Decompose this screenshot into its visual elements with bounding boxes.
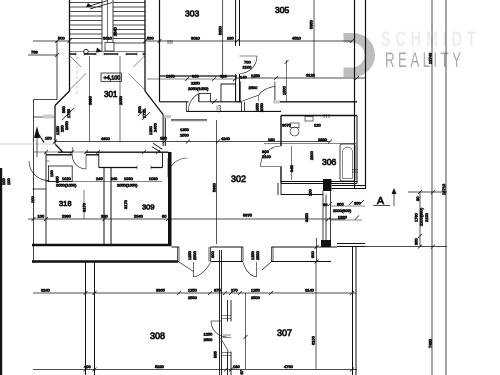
toilet 306 tank (290, 123, 299, 128)
svg-text:1250: 1250 (180, 127, 190, 132)
dim chain right vertical (419, 192, 421, 247)
svg-text:2930: 2930 (318, 137, 328, 142)
door handle ticks (223, 335, 232, 338)
dim ticks mid (53, 140, 332, 144)
svg-text:100: 100 (6, 178, 11, 185)
svg-text:180: 180 (233, 364, 240, 369)
stair flight divider mid rail (107, 0, 109, 43)
sill line 318 (33, 188, 47, 190)
svg-text:2500: 2500 (249, 85, 259, 90)
svg-text:875: 875 (214, 288, 221, 293)
dim 758 tick (55, 53, 59, 57)
room 306 east wall (356, 116, 358, 184)
door 303-305 leaf (240, 55, 258, 57)
door 301-302 leaf (198, 94, 200, 102)
svg-text:240: 240 (96, 176, 103, 181)
svg-text:3010: 3010 (191, 36, 201, 41)
corner block 302 SE (323, 179, 332, 191)
svg-text:370: 370 (231, 288, 238, 293)
door arc hall to 302 (168, 158, 187, 177)
svg-text:301: 301 (104, 90, 118, 99)
dim slashes 301 interior (186, 140, 190, 144)
rooms 318/309 bottom wall (32, 244, 172, 247)
dim chain bottom line (356, 246, 447, 248)
svg-text:360: 360 (354, 201, 361, 206)
corner splay top-left (70, 56, 81, 67)
svg-text:87: 87 (239, 369, 244, 374)
hall inner wall lower segment (228, 352, 232, 375)
room 301 bottom wall upper face (58, 151, 163, 153)
corridor bottom wall west (top of 308) (32, 260, 178, 263)
svg-text:309: 309 (142, 203, 155, 212)
door arc 318 (72, 155, 86, 169)
toilet 306 bowl (290, 127, 299, 136)
svg-text:1030: 1030 (124, 176, 134, 181)
left wall band outer face (34, 99, 58, 101)
door pier box (199, 94, 211, 102)
section arrow left (36, 130, 38, 157)
shaft wall between 305 and 306 (242, 102, 245, 112)
svg-text:4510: 4510 (292, 36, 302, 41)
svg-text:758: 758 (31, 50, 38, 55)
wall 303 bottom (160, 75, 238, 77)
wall 318 west (45, 155, 47, 246)
duct wall right of 302 (323, 191, 331, 240)
svg-text:303: 303 (185, 9, 199, 19)
wall 318/309 double (104, 168, 111, 247)
corridor wall face A (160, 101, 237, 103)
left outer wall lower (33, 100, 35, 264)
svg-text:4300: 4300 (101, 136, 111, 141)
window hatch niche (216, 106, 220, 112)
svg-text:2340: 2340 (134, 214, 144, 219)
svg-text:REALITY: REALITY (385, 48, 464, 72)
connector wall x98.8 (98, 153, 100, 168)
left wall band inner face (34, 116, 55, 118)
room 301 bottom-left chamfer (55, 144, 63, 152)
jamb pair door2 right (272, 247, 274, 262)
svg-text:308: 308 (150, 331, 165, 341)
svg-text:100: 100 (30, 196, 35, 203)
door arc 318 west wall (29, 161, 48, 181)
wall 303 west (159, 0, 161, 102)
svg-text:1500: 1500 (282, 85, 287, 95)
long dim line x=446 (445, 0, 447, 375)
east wing stub wall (337, 244, 365, 247)
svg-text:3305: 3305 (156, 288, 166, 293)
stair flight divider right (112, 0, 114, 51)
dim ticks 3120 (274, 76, 359, 80)
svg-text:2250: 2250 (191, 81, 201, 86)
svg-text:2050: 2050 (118, 95, 123, 105)
jamb pair door2 left (242, 247, 244, 262)
stair landing box (105, 43, 114, 52)
corner splay bottom-left (70, 74, 86, 90)
jamb pair door1 left (178, 247, 180, 262)
svg-text:1250: 1250 (251, 73, 261, 78)
dim slashes near duct (326, 200, 364, 222)
door jambs 309 (137, 166, 151, 170)
dim line y219 (28, 218, 345, 220)
dim line y293 (33, 292, 356, 294)
room 306 west wall lower (280, 167, 282, 184)
svg-text:5230: 5230 (155, 364, 165, 369)
svg-text:180: 180 (268, 137, 275, 142)
upper dim line doors (33, 151, 166, 153)
door 305 leaf diagonal (241, 95, 258, 101)
stair east wall (144, 0, 146, 91)
svg-text:3010: 3010 (103, 36, 113, 41)
dim line 306 (264, 143, 356, 145)
dim short line 1320 (330, 219, 362, 221)
bathtub ticks (352, 170, 358, 173)
svg-text:140: 140 (240, 75, 247, 80)
door corridor 1 arc (194, 263, 211, 278)
left edge black bar (0, 168, 2, 375)
svg-text:3170: 3170 (123, 199, 128, 209)
room 301 right lower wall (163, 115, 165, 147)
SE step horizontal (281, 194, 323, 196)
stair break arrowhead (86, 3, 92, 7)
svg-text:1725: 1725 (66, 108, 71, 118)
corner splay top-right (134, 56, 145, 67)
svg-text:2600: 2600 (309, 150, 314, 160)
dim line vertical 3890 in 301 (89, 56, 91, 142)
svg-text:302: 302 (231, 174, 246, 184)
svg-text:600: 600 (210, 251, 215, 258)
corner splay bottom-right (129, 74, 145, 90)
svg-text:2380: 2380 (62, 214, 72, 219)
room 301 right chamfer (145, 91, 163, 115)
dim line vertical 5850 for 303 (222, 0, 224, 79)
corner block lower (321, 240, 331, 248)
room 301 left chamfer (55, 91, 70, 106)
wall 303/305 upper (236, 0, 240, 46)
dim line 3120 (236, 77, 366, 79)
dimension ticks top (55, 39, 354, 43)
svg-text:2050: 2050 (64, 120, 69, 130)
svg-text:3140: 3140 (305, 288, 315, 293)
door 305 arc (259, 86, 275, 101)
svg-text:500: 500 (58, 36, 65, 41)
svg-text:985: 985 (55, 176, 60, 183)
room 309 east wall thick (168, 152, 172, 246)
SE corner of 302 step wall vertical (278, 183, 281, 195)
door 308 upper arc (211, 321, 227, 337)
dim line y369 (33, 369, 357, 371)
room 308 east wall (220, 250, 222, 375)
dim line hall vertical (245, 293, 247, 369)
svg-text:2500: 2500 (180, 133, 190, 138)
closet niche rect 318 (48, 166, 72, 182)
door corridor 1 leaf diagonal (179, 262, 194, 272)
stair west wall (69, 0, 71, 91)
room 307 east wall (353, 247, 357, 375)
svg-text:2500: 2500 (255, 250, 260, 260)
svg-text:80: 80 (323, 202, 328, 207)
corridor wall face B (186, 110, 281, 112)
svg-text:180: 180 (227, 36, 234, 41)
svg-text:5850: 5850 (218, 25, 223, 35)
svg-text:2050: 2050 (259, 102, 264, 112)
svg-text:3240: 3240 (41, 288, 51, 293)
stair flight divider left (101, 0, 103, 51)
svg-text:250: 250 (160, 136, 167, 141)
dim slash 550 left (62, 108, 74, 120)
svg-text:100: 100 (38, 214, 45, 219)
dim slash 150 (36, 130, 44, 143)
dim chain ticks (418, 190, 435, 249)
stair landing circle (84, 49, 88, 53)
east wing south wall (332, 186, 366, 189)
svg-text:5330: 5330 (212, 182, 217, 192)
svg-text:3450: 3450 (304, 212, 309, 222)
svg-text:400: 400 (84, 364, 91, 369)
stair treads (70, 3, 146, 44)
svg-text:350: 350 (414, 238, 419, 245)
svg-text:2200(850): 2200(850) (419, 207, 424, 226)
dim 758 line (28, 54, 57, 56)
closet niche 303 corner (221, 84, 236, 102)
svg-text:2050(1050): 2050(1050) (117, 183, 138, 188)
svg-text:4240: 4240 (221, 136, 231, 141)
svg-text:2050(1050): 2050(1050) (188, 86, 209, 91)
dim vertical in 306 (291, 146, 293, 180)
door 301-302 arc (188, 94, 198, 112)
dim line vertical 5850 for 305 (313, 0, 315, 78)
svg-text:5850: 5850 (309, 19, 314, 29)
room 301 bottom-right chamfer (152, 143, 162, 152)
svg-text:305: 305 (275, 5, 289, 15)
room 306 door leaf (261, 166, 282, 168)
svg-text:+4,100: +4,100 (104, 76, 121, 82)
door 305 mid line (257, 95, 259, 101)
watermark logo D (344, 33, 376, 77)
svg-text:2100: 2100 (262, 154, 272, 159)
svg-text:12740: 12740 (428, 52, 433, 64)
door niche 318 (72, 147, 86, 155)
sink 306 (305, 117, 313, 122)
wall between stairs and room 301 (70, 53, 146, 55)
top dimension line (33, 40, 352, 42)
radiator ticks 306 (324, 114, 329, 118)
bathtub 306 (340, 144, 355, 181)
stair walk-line arrow (96, 48, 102, 53)
radiator lines below corridor wall (171, 119, 207, 121)
svg-text:1050: 1050 (166, 74, 176, 79)
svg-text:80: 80 (162, 214, 167, 219)
dim slash face A (212, 99, 217, 104)
svg-text:240: 240 (111, 176, 118, 181)
svg-text:1725: 1725 (142, 108, 147, 118)
dim vertical 6100 (315, 262, 317, 369)
svg-text:120: 120 (314, 123, 321, 128)
svg-text:2000(900): 2000(900) (333, 208, 352, 213)
svg-text:2500: 2500 (188, 295, 198, 300)
svg-text:1020: 1020 (62, 176, 72, 181)
svg-text:3120: 3120 (306, 73, 316, 78)
door 303-305 arc (240, 56, 258, 74)
door jamb ticks on landing wall (76, 53, 143, 56)
svg-text:2500: 2500 (192, 250, 197, 260)
hall north wall face A (172, 246, 338, 248)
dashed shaft line in 301 (76, 56, 78, 96)
dim line 303 bottom (147, 78, 237, 80)
svg-text:2400: 2400 (153, 122, 158, 132)
dim vertical 5330 (216, 120, 218, 244)
svg-text:500: 500 (147, 36, 154, 41)
svg-text:2640: 2640 (113, 26, 118, 36)
dim vertical 318 (83, 190, 85, 219)
svg-text:7460: 7460 (428, 338, 433, 348)
dim slash 550 right (138, 108, 150, 120)
svg-text:200: 200 (101, 214, 108, 219)
right exterior wall inner face (354, 0, 356, 189)
svg-text:1250: 1250 (188, 288, 198, 293)
hall inner wall upper segment (228, 300, 232, 322)
svg-text:18710: 18710 (441, 183, 446, 195)
room 306 top wall (281, 115, 357, 117)
svg-text:1250: 1250 (251, 288, 261, 293)
room 306 door arc (261, 146, 282, 167)
dim line 4300/4240 (55, 141, 330, 143)
svg-text:30: 30 (415, 196, 420, 201)
corridor wall west jamb (185, 102, 187, 112)
door corridor 1 leaf vertical (193, 262, 195, 277)
door 305 jambs (241, 82, 275, 102)
svg-text:307: 307 (277, 328, 292, 338)
elevation box +4,100 (101, 73, 122, 82)
room 306 bottom wall (281, 182, 357, 184)
dim ticks y219 (32, 217, 171, 221)
dim ticks y369 (84, 368, 355, 372)
window hatch left band (43, 115, 53, 119)
svg-text:150: 150 (45, 136, 52, 141)
door 308 upper leaf (211, 320, 221, 322)
dim ticks y293 (84, 291, 355, 295)
dim ticks 303 bottom (185, 77, 237, 81)
svg-text:2500: 2500 (251, 295, 261, 300)
svg-text:3890: 3890 (88, 95, 93, 105)
svg-text:160: 160 (49, 170, 54, 177)
radiator ticks 303 (168, 40, 172, 44)
dim line 900/360 (330, 205, 365, 207)
hall door jamb marks (222, 316, 232, 356)
svg-text:1250: 1250 (204, 332, 214, 337)
svg-text:980: 980 (220, 74, 227, 79)
wall 305 bottom (237, 101, 358, 103)
svg-text:2150: 2150 (424, 212, 429, 222)
door jamb 318 west (46, 161, 50, 181)
svg-text:3070: 3070 (282, 123, 292, 128)
rooms 318/309 top wall (99, 167, 163, 169)
door corridor 2 diagonal (262, 262, 272, 271)
svg-text:5675: 5675 (243, 213, 253, 218)
left exterior wall outer face (56, 41, 58, 100)
vertical dim line through hall wall (316, 238, 318, 262)
stair break line (86, 1, 112, 10)
room 308 west wall (86, 262, 95, 375)
svg-text:318: 318 (59, 199, 72, 208)
dim line vertical 2050 in 301 (119, 56, 121, 142)
rooms 318/309 top wall lower face (46, 152, 169, 155)
svg-text:960: 960 (192, 74, 199, 79)
hall north wall face B (172, 261, 332, 263)
dim chain top line (408, 191, 447, 193)
svg-text:1030: 1030 (149, 176, 159, 181)
svg-text:2100: 2100 (243, 65, 253, 70)
door corridor 2 leaf vertical (256, 262, 258, 277)
room 301 left lower wall (54, 106, 56, 145)
wall 303/305 lower (236, 74, 240, 102)
connector wall right (162, 153, 164, 168)
left jog wall (45, 152, 47, 155)
svg-text:6100: 6100 (311, 335, 316, 345)
long dim line x=433 (431, 0, 433, 375)
door 308 lower leaf diagonal (221, 338, 229, 352)
svg-text:600: 600 (310, 251, 315, 258)
svg-text:2500: 2500 (204, 337, 214, 342)
jamb pair door1 right (209, 247, 211, 262)
section line gray (0, 143, 56, 145)
svg-text:306: 306 (322, 157, 336, 167)
right exterior wall outer face (365, 0, 367, 189)
stair lower landing edge (70, 51, 146, 53)
svg-text:565: 565 (213, 351, 218, 358)
svg-text:150: 150 (308, 189, 313, 196)
dim line doors row (46, 181, 162, 183)
window hatch corridor (164, 115, 172, 118)
window hatch 305 bottom (273, 100, 280, 103)
svg-text:4760: 4760 (284, 364, 294, 369)
section arrow (393, 192, 395, 206)
room 306 west wall upper (280, 116, 282, 147)
door corridor 2 arc (243, 263, 257, 278)
